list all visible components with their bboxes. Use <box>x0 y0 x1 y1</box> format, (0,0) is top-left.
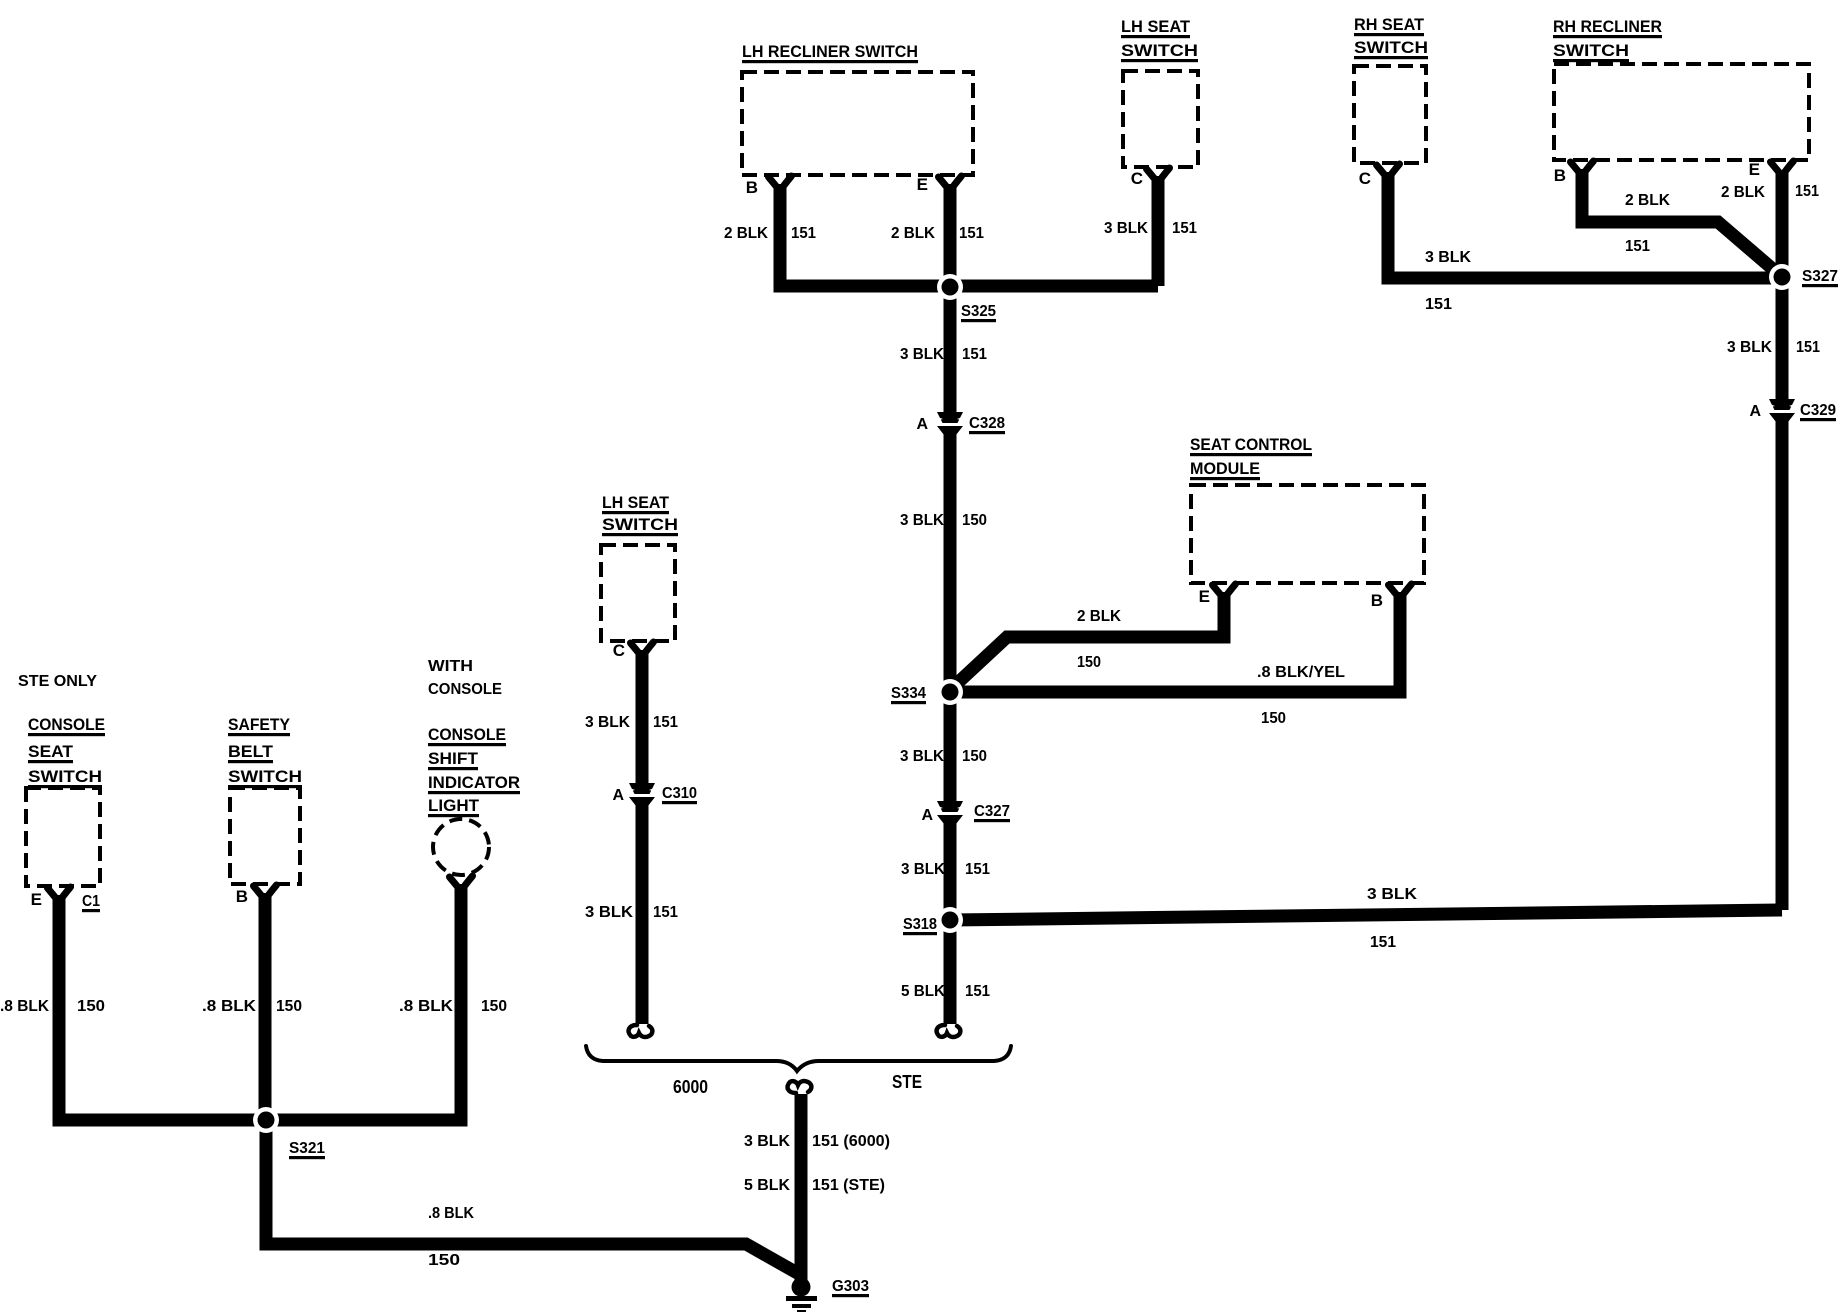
svg-text:SWITCH: SWITCH <box>228 767 302 786</box>
splice S334 <box>891 679 963 705</box>
label .8 BLK (S321-ground wire) <box>428 1205 474 1222</box>
svg-text:LIGHT: LIGHT <box>428 796 480 815</box>
seat control module pin B <box>1371 584 1412 610</box>
console shift indicator light lamp <box>433 819 489 875</box>
svg-text:2 BLK: 2 BLK <box>724 225 768 242</box>
svg-text:150: 150 <box>77 998 105 1015</box>
wire: console seat switch pin E to S321 <box>59 895 266 1120</box>
wire: RH recliner pin B to S327 <box>1582 169 1782 277</box>
svg-text:B: B <box>1371 591 1383 610</box>
svg-text:151 (6000): 151 (6000) <box>812 1133 890 1150</box>
svg-text:C310: C310 <box>662 785 697 802</box>
svg-text:E: E <box>917 175 928 194</box>
LH seat switch (middle) box <box>601 545 675 641</box>
label .8 BLK 150 (shift light wire) <box>399 998 507 1015</box>
svg-text:3 BLK: 3 BLK <box>900 512 944 529</box>
svg-text:6000: 6000 <box>673 1077 708 1097</box>
RH recliner switch title <box>1553 17 1662 62</box>
RH recliner switch box <box>1554 64 1809 160</box>
wire: lower trunk hook to ground G303 <box>795 1094 808 1282</box>
safety belt switch box <box>230 788 300 884</box>
svg-text:S325: S325 <box>961 303 996 320</box>
label 151 (S318 long wire) <box>1370 934 1396 951</box>
LH recliner switch title <box>742 42 918 63</box>
label 3 BLK 151 (trunk S325-C328) <box>900 346 987 363</box>
label 3 BLK 151 (LH seat middle upper) <box>585 714 678 731</box>
wire: RH recliner pin E down through S327 and C329 to junction <box>1776 172 1789 910</box>
svg-text:LH SEAT: LH SEAT <box>602 493 670 512</box>
svg-text:E: E <box>1749 160 1760 179</box>
wire: LH seat switch (top) pin C down <box>1152 176 1165 286</box>
console seat switch pin E <box>31 887 71 909</box>
svg-text:.8 BLK/YEL: .8 BLK/YEL <box>1257 664 1345 681</box>
svg-text:151 (STE): 151 (STE) <box>812 1177 885 1194</box>
svg-text:C1: C1 <box>82 893 100 910</box>
seat control module box <box>1191 485 1424 583</box>
wire: LH recliner pin E down to S325 <box>944 184 957 286</box>
svg-text:RH SEAT: RH SEAT <box>1354 15 1425 34</box>
label 151 (RH recliner B wire) <box>1625 238 1650 255</box>
svg-text:151: 151 <box>962 346 987 363</box>
wire: LH seat switch (middle) pin C down to hook <box>636 650 649 1024</box>
svg-text:A: A <box>916 416 928 433</box>
svg-text:150: 150 <box>481 998 507 1015</box>
label 3 BLK (RH seat C wire) <box>1425 249 1471 266</box>
label 2 BLK (S334-module E wire) <box>1077 608 1121 625</box>
svg-text:C327: C327 <box>974 803 1010 820</box>
svg-text:CONSOLE: CONSOLE <box>428 725 506 744</box>
svg-text:.8 BLK: .8 BLK <box>399 998 453 1015</box>
svg-text:G303: G303 <box>832 1278 869 1295</box>
seat control module title <box>1190 435 1312 480</box>
svg-text:151: 151 <box>1796 339 1820 356</box>
wire: S321 down and right to ground lead (.8 BLK 150) <box>266 1120 799 1274</box>
wire: console shift indicator light to S321 <box>266 884 461 1120</box>
RH recliner switch pin B <box>1554 161 1594 185</box>
svg-text:2 BLK: 2 BLK <box>1077 608 1121 625</box>
svg-text:LH RECLINER SWITCH: LH RECLINER SWITCH <box>742 42 918 61</box>
console seat switch box <box>26 788 100 886</box>
svg-text:INDICATOR: INDICATOR <box>428 773 520 792</box>
svg-text:SAFETY: SAFETY <box>228 715 291 734</box>
svg-text:S327: S327 <box>1802 268 1838 285</box>
6000 label <box>673 1077 708 1097</box>
svg-text:3 BLK: 3 BLK <box>900 346 944 363</box>
LH recliner switch pin E <box>917 175 962 194</box>
label 2 BLK 151 (LH recliner E wire) <box>891 225 984 242</box>
svg-text:150: 150 <box>428 1252 460 1269</box>
svg-text:LH SEAT: LH SEAT <box>1121 17 1191 36</box>
console seat switch title <box>28 715 105 788</box>
splice S318 <box>903 907 963 935</box>
label 2 BLK (RH recliner E wire) <box>1721 184 1765 201</box>
svg-text:5 BLK: 5 BLK <box>744 1177 790 1194</box>
splice S327 <box>1769 264 1838 290</box>
LH seat switch (top) pin C <box>1131 168 1170 188</box>
svg-text:B: B <box>236 887 248 906</box>
brace grouping 6000 / STE <box>586 1046 1011 1071</box>
connector C328 <box>916 412 1005 435</box>
WITH CONSOLE note <box>428 658 502 698</box>
ground G303 <box>786 1278 869 1312</box>
svg-text:SWITCH: SWITCH <box>28 767 102 786</box>
svg-text:151: 151 <box>965 861 990 878</box>
svg-text:3 BLK: 3 BLK <box>1425 249 1471 266</box>
label 3 BLK 151 (trunk C327-S318) <box>901 861 990 878</box>
wire: S334 to seat control module pin B (.8 BLK/YEL 150) <box>950 592 1400 692</box>
svg-text:E: E <box>1199 587 1210 606</box>
wire: S334 to seat control module pin E (2 BLK 150) <box>950 592 1224 690</box>
svg-text:3 BLK: 3 BLK <box>901 861 945 878</box>
svg-text:3 BLK: 3 BLK <box>900 748 944 765</box>
console shift indicator light pin <box>450 876 473 891</box>
svg-text:MODULE: MODULE <box>1190 459 1260 478</box>
svg-text:SWITCH: SWITCH <box>602 515 678 534</box>
wire: LH recliner pin B to S325 horizontal <box>780 184 1158 286</box>
connector C327 <box>921 801 1010 824</box>
label 5 BLK 151 (STE) (ground lead) <box>744 1177 885 1194</box>
label 2 BLK 151 (LH recliner B wire) <box>724 225 816 242</box>
svg-text:151: 151 <box>1795 183 1819 200</box>
label 3 BLK 150 (trunk S334-C327) <box>900 748 987 765</box>
seat control module pin E <box>1199 584 1236 606</box>
label 2 BLK (RH recliner B wire) <box>1625 192 1670 209</box>
RH seat switch pin C <box>1359 164 1400 188</box>
svg-text:RH RECLINER: RH RECLINER <box>1553 17 1662 36</box>
svg-text:3 BLK: 3 BLK <box>585 904 633 921</box>
connector C310 <box>612 783 697 806</box>
label 150 (S334-module B wire) <box>1261 710 1286 727</box>
label 3 BLK 150 (trunk C328-S334) <box>900 512 987 529</box>
label 3 BLK 151 (right vertical S327-C329) <box>1727 339 1820 356</box>
svg-text:151: 151 <box>653 714 678 731</box>
svg-text:CONSOLE: CONSOLE <box>28 715 105 734</box>
svg-text:3 BLK: 3 BLK <box>585 714 630 731</box>
STE ONLY note <box>18 673 97 690</box>
wire: main trunk S325 to bottom hook <box>944 286 957 1024</box>
svg-text:3 BLK: 3 BLK <box>744 1133 790 1150</box>
svg-text:S334: S334 <box>891 685 926 702</box>
label 3 BLK 151 (LH seat top C wire) <box>1104 220 1197 237</box>
svg-text:WITH: WITH <box>428 658 473 675</box>
LH recliner switch pin B <box>746 176 792 197</box>
svg-text:A: A <box>612 787 624 804</box>
label 150 (S321-ground wire) <box>428 1252 460 1269</box>
LH recliner switch box <box>742 72 973 175</box>
wire: S318 long horizontal to right vertical <box>950 910 1782 920</box>
svg-text:3 BLK: 3 BLK <box>1727 339 1772 356</box>
svg-text:E: E <box>31 890 42 909</box>
svg-text:5 BLK: 5 BLK <box>901 983 945 1000</box>
svg-text:3 BLK: 3 BLK <box>1104 220 1148 237</box>
label .8 BLK/YEL (S334-module B wire) <box>1257 664 1345 681</box>
svg-text:S321: S321 <box>289 1140 325 1157</box>
svg-text:2 BLK: 2 BLK <box>891 225 935 242</box>
label 151 (RH seat C wire) <box>1425 296 1452 313</box>
svg-text:151: 151 <box>653 904 678 921</box>
svg-text:.8 BLK: .8 BLK <box>428 1205 474 1222</box>
svg-text:SWITCH: SWITCH <box>1354 38 1428 57</box>
svg-text:CONSOLE: CONSOLE <box>428 681 502 698</box>
svg-text:C328: C328 <box>969 415 1005 432</box>
svg-text:C329: C329 <box>1800 402 1836 419</box>
label .8 BLK 150 (safety belt wire) <box>202 998 302 1015</box>
svg-text:151: 151 <box>965 983 990 1000</box>
RH seat switch box <box>1354 66 1426 163</box>
LH seat switch (top) title <box>1121 17 1198 62</box>
svg-text:A: A <box>921 807 933 824</box>
connector C329 <box>1749 399 1836 422</box>
connector C1 label <box>82 893 100 912</box>
safety belt switch pin B <box>236 885 277 906</box>
svg-text:2 BLK: 2 BLK <box>1625 192 1670 209</box>
svg-text:151: 151 <box>1172 220 1197 237</box>
svg-text:.8 BLK: .8 BLK <box>0 998 49 1015</box>
splice S321 <box>253 1107 325 1159</box>
svg-text:S318: S318 <box>903 916 937 933</box>
svg-text:151: 151 <box>959 225 984 242</box>
svg-text:SEAT: SEAT <box>28 742 74 761</box>
LH seat switch (middle) title <box>602 493 678 536</box>
console shift indicator light title <box>428 725 520 817</box>
wire: RH seat switch pin C to S327 <box>1388 172 1782 278</box>
RH recliner switch pin E <box>1749 160 1794 179</box>
svg-text:151: 151 <box>1370 934 1396 951</box>
label 5 BLK 151 (trunk below S318) <box>901 983 990 1000</box>
svg-text:B: B <box>1554 166 1566 185</box>
svg-text:BELT: BELT <box>228 742 274 761</box>
label 3 BLK 151 (6000) (ground lead) <box>744 1133 890 1150</box>
safety belt switch title <box>228 715 302 788</box>
svg-text:STE ONLY: STE ONLY <box>18 673 97 690</box>
svg-text:150: 150 <box>962 512 987 529</box>
svg-text:SWITCH: SWITCH <box>1121 41 1198 60</box>
svg-text:C: C <box>1131 169 1143 188</box>
svg-text:151: 151 <box>791 225 816 242</box>
svg-text:150: 150 <box>1077 654 1101 671</box>
svg-text:150: 150 <box>962 748 987 765</box>
hook end of LH seat switch wire (6000) <box>629 1025 653 1037</box>
hook start of ground lead wire <box>788 1081 812 1093</box>
svg-text:151: 151 <box>1625 238 1650 255</box>
hook end of main trunk wire (STE) <box>937 1025 961 1037</box>
svg-text:C: C <box>1359 169 1371 188</box>
label 3 BLK (S318 long wire) <box>1367 886 1417 903</box>
STE label <box>892 1072 922 1092</box>
svg-text:A: A <box>1749 403 1761 420</box>
svg-text:3 BLK: 3 BLK <box>1367 886 1417 903</box>
label 151 (RH recliner E wire) <box>1795 183 1819 200</box>
svg-text:C: C <box>613 641 625 660</box>
svg-text:SEAT CONTROL: SEAT CONTROL <box>1190 435 1312 454</box>
svg-text:STE: STE <box>892 1072 922 1092</box>
label .8 BLK 150 (console seat wire) <box>0 998 105 1015</box>
label 3 BLK 151 (LH seat middle lower) <box>585 904 678 921</box>
splice S325 <box>937 274 996 322</box>
LH seat switch (top) box <box>1123 71 1198 167</box>
svg-text:B: B <box>746 178 758 197</box>
svg-text:SHIFT: SHIFT <box>428 749 479 768</box>
RH seat switch title <box>1354 15 1428 59</box>
wire: safety belt switch pin B down to S321 <box>259 893 272 1120</box>
LH seat switch (middle) pin C <box>613 641 654 660</box>
svg-text:151: 151 <box>1425 296 1452 313</box>
label 150 (S334-module E wire) <box>1077 654 1101 671</box>
svg-text:SWITCH: SWITCH <box>1553 41 1629 60</box>
svg-text:150: 150 <box>276 998 302 1015</box>
svg-text:.8 BLK: .8 BLK <box>202 998 256 1015</box>
svg-text:150: 150 <box>1261 710 1286 727</box>
svg-text:2 BLK: 2 BLK <box>1721 184 1765 201</box>
